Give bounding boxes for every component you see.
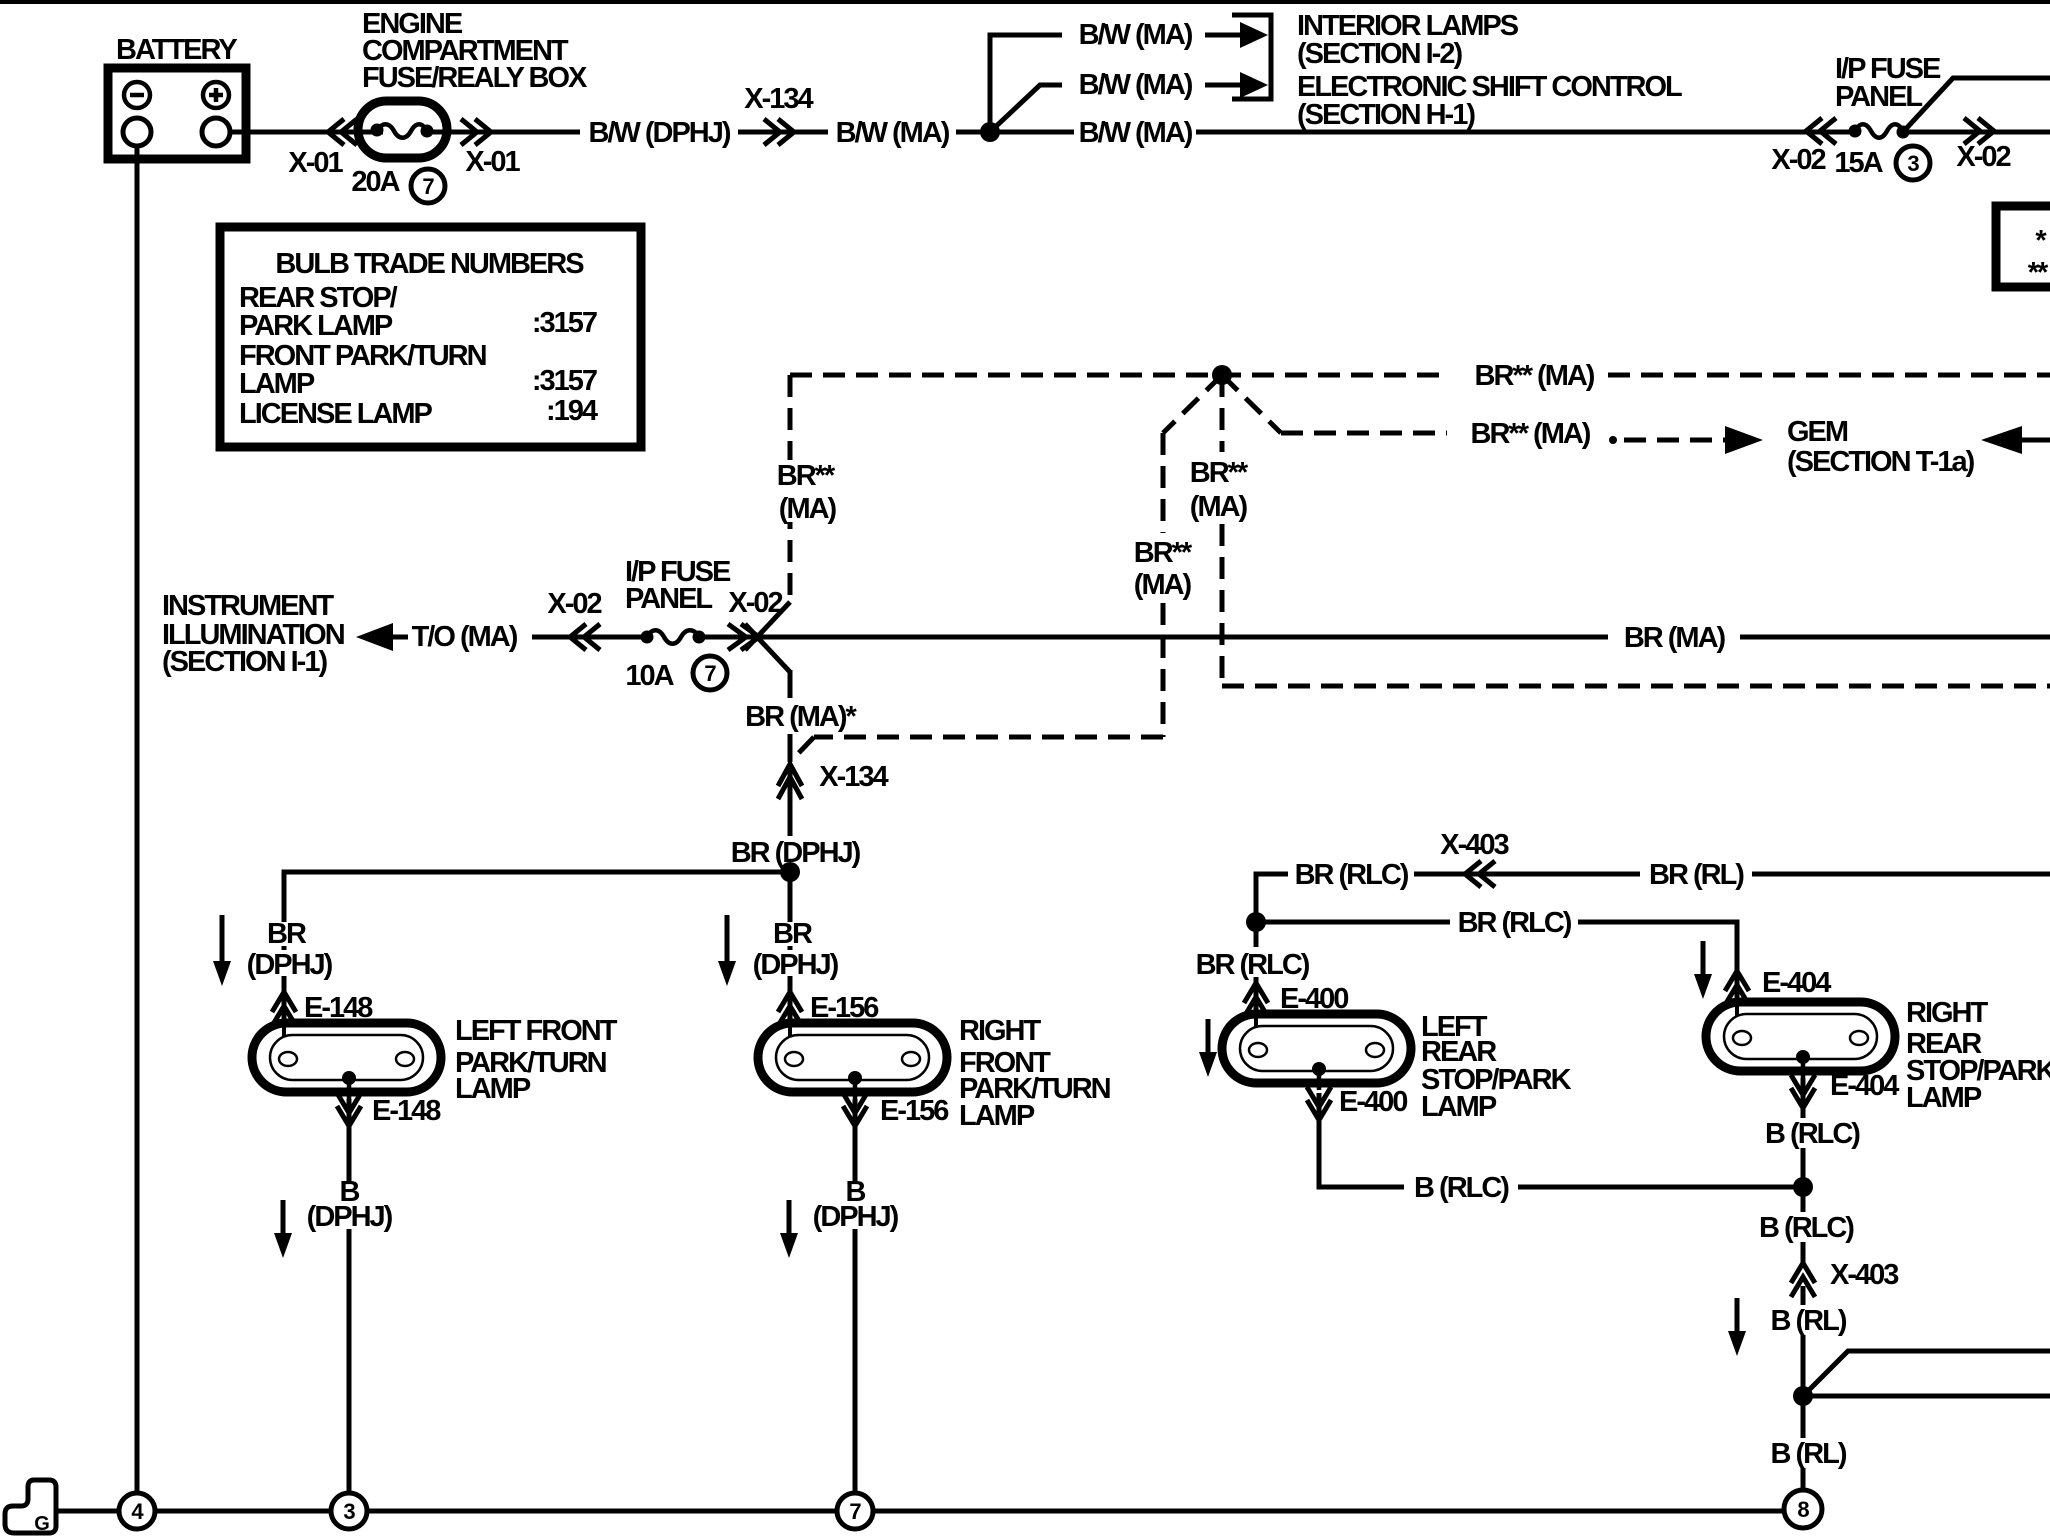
- dashed wire BR** (MA) continues to right edge: [1608, 373, 2050, 378]
- svg-text:BR**: BR**: [1190, 457, 1249, 489]
- wire label BR** (MA) at left drop: [770, 460, 850, 525]
- svg-text:4: 4: [131, 1499, 144, 1524]
- svg-text:E-148: E-148: [372, 1095, 441, 1127]
- main BR (MA) wire across to right edge: [764, 635, 2050, 640]
- wire label B (DPHJ) right front: [811, 1176, 899, 1233]
- battery B+ feed wire (B/W) from battery to I/P fuse panel: [229, 130, 2050, 135]
- svg-text:X-02: X-02: [728, 587, 782, 619]
- svg-text:B/W (MA): B/W (MA): [1079, 19, 1193, 51]
- svg-text:(MA): (MA): [1134, 569, 1192, 601]
- svg-text:LAMP: LAMP: [959, 1100, 1035, 1132]
- svg-text:X-01: X-01: [288, 147, 343, 179]
- svg-text:(DPHJ): (DPHJ): [307, 1201, 393, 1233]
- wire label BR (DPHJ) left front: [245, 918, 333, 981]
- dashed wire BR** (MA) to GEM: [1222, 375, 1281, 433]
- wire BR (DPHJ) from X-134 down to splice: [788, 800, 793, 872]
- wire B (RLC) down to X-403: [1801, 1187, 1806, 1266]
- dashed wire BR** right drop (to GEM bus): [1222, 375, 2050, 686]
- arrow current direction right front: [718, 915, 736, 986]
- junction node B/W splice: [980, 122, 1000, 142]
- dashed wire BR** (MA) horizontal top: [790, 373, 1446, 378]
- svg-text:FUSE/REALY BOX: FUSE/REALY BOX: [362, 62, 588, 94]
- svg-text:PARK LAMP: PARK LAMP: [239, 310, 393, 342]
- svg-text:E-156: E-156: [880, 1095, 949, 1127]
- svg-text::3157: :3157: [532, 307, 597, 339]
- fuse 20A in engine compartment fuse/relay box: [358, 101, 447, 158]
- wire label BR (RLC) feed: [1288, 856, 1414, 893]
- svg-text:BR**: BR**: [777, 460, 836, 492]
- connector X-403 (ground side): [1791, 1263, 1815, 1297]
- junction node B (RLC) splice: [1793, 1177, 1813, 1197]
- junction node BR (DPHJ) splice: [780, 862, 800, 882]
- svg-text:7: 7: [422, 174, 434, 199]
- wire label BR (RL) feed: [1640, 856, 1752, 893]
- junction node BR (RLC) splice: [1246, 912, 1266, 932]
- fuse 10A in I/P fuse panel: [641, 620, 706, 656]
- svg-text:(SECTION I-2): (SECTION I-2): [1297, 38, 1462, 70]
- svg-text:BR** (MA): BR** (MA): [1475, 360, 1595, 392]
- svg-text:BR (RLC): BR (RLC): [1295, 859, 1409, 891]
- connector X-02 (left half, top fuse): [1806, 118, 1836, 144]
- junction node BR** splice: [1212, 365, 1232, 385]
- battery: [108, 68, 246, 159]
- wire from X-02 splice down to X-134: [788, 670, 793, 762]
- svg-text:(SECTION H-1): (SECTION H-1): [1297, 99, 1475, 131]
- connector E-404 (lamp ground side): [1791, 1075, 1815, 1108]
- ground point circle 7 (right front lamp): [837, 1493, 873, 1529]
- wire B (DPHJ) to ground bus right front: [853, 1099, 858, 1497]
- svg-text:(MA): (MA): [779, 493, 837, 525]
- arrow current direction left front ground: [274, 1200, 292, 1258]
- connector E-148 (lamp ground side): [337, 1093, 361, 1126]
- svg-text:GEM: GEM: [1787, 416, 1848, 448]
- svg-text:LAMP: LAMP: [1421, 1091, 1497, 1123]
- wire B (RL) branch upper to right edge: [1803, 1351, 2050, 1396]
- wire label B (RLC) lower: [1752, 1212, 1866, 1244]
- connector X-134 (to body harness): [778, 764, 802, 800]
- svg-text:7: 7: [704, 661, 716, 686]
- svg-text:LAMP: LAMP: [1906, 1082, 1982, 1114]
- arrow current direction left rear: [1199, 1019, 1217, 1077]
- wire B (RL) to ground bus: [1801, 1286, 1806, 1494]
- wire label BR (RLC) branch: [1450, 904, 1578, 941]
- svg-text:E-404: E-404: [1830, 1070, 1899, 1102]
- svg-text:*: *: [2035, 225, 2047, 257]
- connector E-404 (lamp feed): [1725, 971, 1749, 1005]
- connector X-01 (left half): [328, 119, 357, 145]
- svg-text:X-02: X-02: [547, 588, 601, 620]
- connector X-02 (right splice): [728, 602, 790, 672]
- wire B (RL) branch lower to right edge: [1803, 1394, 2050, 1399]
- svg-text:LICENSE LAMP: LICENSE LAMP: [239, 398, 433, 430]
- svg-text:20A: 20A: [351, 166, 400, 198]
- svg-text:B/W (MA): B/W (MA): [836, 117, 950, 149]
- svg-text:INSTRUMENT: INSTRUMENT: [162, 590, 334, 622]
- connector X-403 (feed): [1465, 861, 1495, 887]
- ground bus wire: [56, 1509, 1803, 1514]
- wire label BR (RLC) left rear: [1192, 947, 1314, 981]
- wire label B/W (MA) branch 2: [1074, 66, 1196, 104]
- dashed wire BR** left drop to X-02: [788, 375, 793, 604]
- svg-text::194: :194: [546, 395, 598, 427]
- fuse number circle 3: [1896, 146, 1930, 180]
- svg-text:BR (MA)*: BR (MA)*: [745, 701, 857, 733]
- fuse number circle 7: [693, 656, 727, 690]
- ground G: [5, 1480, 56, 1535]
- junction node B (RL) splice: [1793, 1386, 1813, 1406]
- ground point circle 3 (left front lamp): [331, 1493, 367, 1529]
- footnote box (clipped at edge): [1996, 206, 2050, 287]
- wire label B/W (MA) branch 1: [1074, 16, 1196, 54]
- svg-text:X-02: X-02: [1771, 144, 1825, 176]
- svg-text:RIGHT: RIGHT: [1906, 997, 1989, 1029]
- wire label BR (MA)*: [740, 698, 862, 734]
- svg-text:15A: 15A: [1834, 147, 1883, 179]
- svg-text:B/W (DPHJ): B/W (DPHJ): [588, 117, 730, 149]
- svg-text:X-134: X-134: [744, 83, 813, 115]
- svg-text:B (RL): B (RL): [1771, 1305, 1847, 1337]
- svg-text:(DPHJ): (DPHJ): [813, 1201, 899, 1233]
- svg-text:G: G: [34, 1513, 50, 1535]
- svg-text:BULB TRADE NUMBERS: BULB TRADE NUMBERS: [275, 248, 584, 280]
- dashed wire BR** middle drop (to X-134 side): [792, 375, 1222, 760]
- scan border top edge: [0, 0, 2050, 4]
- wire label B/W (MA) main: [1074, 114, 1196, 152]
- fuse number circle 7: [411, 169, 445, 203]
- wire BR (DPHJ) horizontal to left front lamp: [284, 872, 790, 1023]
- wire BR (RLC) branch to right rear lamp: [1256, 922, 1737, 1002]
- svg-text:PANEL: PANEL: [625, 583, 712, 615]
- svg-text:3: 3: [1907, 151, 1919, 176]
- svg-text:BR (RLC): BR (RLC): [1196, 949, 1310, 981]
- connector X-02 (right half, top fuse): [1964, 118, 1994, 144]
- svg-text:BR**: BR**: [1134, 537, 1193, 569]
- wire label B (RLC) horizontal: [1404, 1169, 1518, 1206]
- svg-text:X-403: X-403: [1830, 1259, 1899, 1291]
- connector E-400 (lamp ground side): [1307, 1087, 1331, 1120]
- wire label BR** (MA) right drop: [1190, 457, 1249, 523]
- arrow to interior lamps: [1205, 22, 1268, 48]
- svg-text:X-134: X-134: [819, 761, 888, 793]
- svg-text:T/O (MA): T/O (MA): [412, 621, 518, 653]
- svg-text::3157: :3157: [532, 365, 597, 397]
- svg-text:B (RLC): B (RLC): [1414, 1172, 1509, 1204]
- svg-text:(SECTION I-1): (SECTION I-1): [162, 646, 327, 678]
- arrow current direction B (RL): [1728, 1298, 1746, 1356]
- svg-text:RIGHT: RIGHT: [959, 1015, 1042, 1047]
- wire branch through I/P fuse panel exiting top right: [1903, 78, 2050, 132]
- wire label B (RLC) right rear: [1758, 1118, 1872, 1150]
- svg-text:**: **: [2028, 257, 2049, 289]
- wire B (DPHJ) to ground bus: [347, 1099, 352, 1497]
- svg-text:B (RL): B (RL): [1771, 1438, 1847, 1470]
- fuse 15A in I/P fuse panel: [1849, 114, 1910, 150]
- svg-text:(SECTION T-1a): (SECTION T-1a): [1787, 446, 1975, 478]
- wire BR (RLC) down to left rear lamp: [1254, 922, 1259, 1014]
- connector X-134: [764, 119, 794, 145]
- wire label BR (MA): [1608, 619, 1740, 657]
- svg-text:E-400: E-400: [1339, 1086, 1407, 1118]
- wire label B/W (MA): [828, 114, 956, 152]
- svg-text:(DPHJ): (DPHJ): [753, 949, 839, 981]
- wire B (RLC) from right rear lamp down: [1801, 1078, 1806, 1187]
- svg-text:8: 8: [1797, 1497, 1809, 1522]
- right rear stop/park lamp E-404: [1706, 1002, 1895, 1078]
- arrow from right edge into GEM: [1981, 426, 2050, 454]
- svg-text:PANEL: PANEL: [1835, 81, 1922, 113]
- svg-text:LEFT FRONT: LEFT FRONT: [455, 1015, 618, 1047]
- wire B (RLC) from left rear lamp to splice: [1319, 1093, 1803, 1187]
- svg-text:X-01: X-01: [465, 146, 520, 178]
- connector E-400 (lamp feed): [1244, 983, 1268, 1017]
- ground point circle 4 (battery): [119, 1493, 155, 1529]
- wire BR (RLC) / BR (RL) feed row: [1256, 874, 2050, 922]
- svg-text:B (RLC): B (RLC): [1759, 1212, 1854, 1244]
- wire label BR** (MA): [1460, 357, 1608, 395]
- wire label BR (DPHJ): [731, 836, 861, 869]
- right front park/turn lamp E-156: [758, 1023, 947, 1099]
- wire T/O from arrow to fuse: [532, 635, 764, 640]
- svg-text:BR (RL): BR (RL): [1649, 859, 1744, 891]
- wire branch to electronic shift control: [990, 85, 1062, 132]
- svg-text:E-404: E-404: [1762, 967, 1831, 999]
- dash-dot wire into GEM arrow: [1609, 426, 1763, 454]
- arrow current direction right rear: [1694, 941, 1712, 999]
- svg-text:B/W (MA): B/W (MA): [1079, 69, 1193, 101]
- arrow current direction right front ground: [780, 1200, 798, 1258]
- arrow to instrument illumination: [356, 623, 408, 651]
- svg-text:B/W (MA): B/W (MA): [1079, 117, 1193, 149]
- connector X-01 (right half): [461, 119, 491, 145]
- battery ground wire (vertical to ground bus): [135, 146, 140, 1496]
- svg-text:BR (RLC): BR (RLC): [1458, 907, 1572, 939]
- wire branch to interior lamps: [990, 35, 1062, 132]
- svg-text:BATTERY: BATTERY: [116, 34, 237, 66]
- bulb trade numbers box: [220, 227, 641, 447]
- wire label B (RL) lower: [1765, 1438, 1847, 1470]
- svg-text:10A: 10A: [625, 660, 674, 692]
- connector E-156 (lamp ground side): [843, 1093, 867, 1126]
- destination bracket: [1232, 15, 1271, 99]
- wire label B (DPHJ) left front: [305, 1176, 393, 1233]
- svg-text:X-403: X-403: [1440, 829, 1509, 861]
- wire label BR (DPHJ) right front: [751, 918, 839, 981]
- svg-text:B (RLC): B (RLC): [1765, 1118, 1860, 1150]
- svg-text:X-02: X-02: [1956, 141, 2010, 173]
- connector E-148 (lamp feed): [272, 992, 296, 1026]
- svg-text:BR** (MA): BR** (MA): [1471, 418, 1591, 450]
- left rear stop/park lamp E-400: [1222, 1014, 1411, 1090]
- connector E-156 (lamp feed): [778, 992, 802, 1026]
- svg-text:LAMP: LAMP: [455, 1073, 531, 1105]
- ground point circle 8 (rear lamps): [1784, 1490, 1822, 1528]
- wire label B (RL): [1765, 1305, 1847, 1337]
- arrow to electronic shift control: [1205, 72, 1268, 98]
- left front park/turn lamp E-148: [252, 1023, 441, 1099]
- connector X-02 (left half, 10A fuse): [570, 624, 600, 650]
- svg-text:3: 3: [343, 1499, 355, 1524]
- svg-text:7: 7: [849, 1499, 861, 1524]
- arrow current direction left front: [213, 915, 231, 986]
- svg-text:BR: BR: [773, 918, 813, 950]
- wire label B/W (DPHJ): [580, 114, 738, 152]
- wire BR (DPHJ) vertical to right front lamp: [788, 872, 793, 1023]
- svg-text:(DPHJ): (DPHJ): [247, 949, 333, 981]
- wire label BR** (MA) middle drop: [1134, 537, 1193, 601]
- svg-text:LAMP: LAMP: [239, 368, 315, 400]
- svg-text:(MA): (MA): [1190, 491, 1248, 523]
- svg-text:BR (MA): BR (MA): [1624, 622, 1726, 654]
- svg-text:BR: BR: [267, 918, 307, 950]
